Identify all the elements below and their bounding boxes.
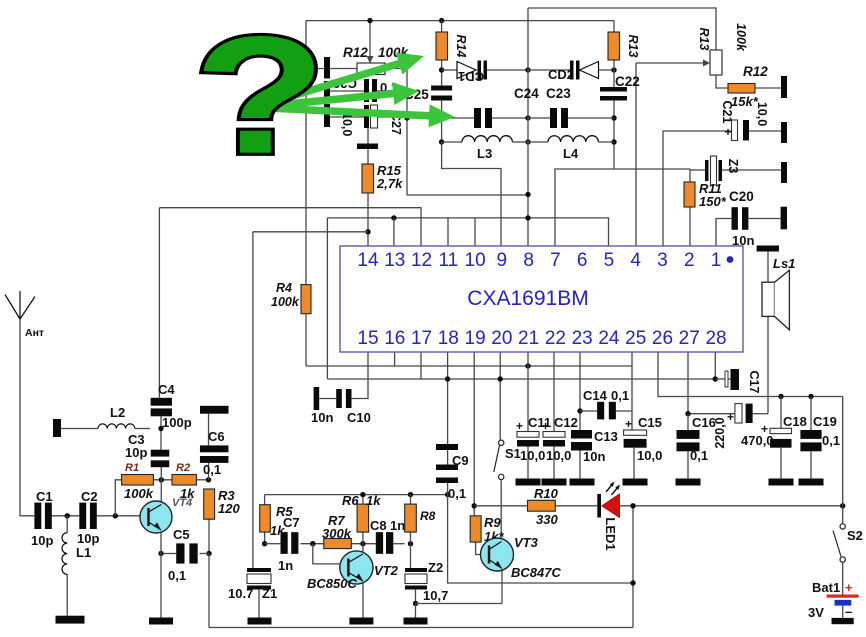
svg-text:R8: R8 [420, 509, 436, 523]
wire R7 right [351, 543, 376, 545]
bottom bus [209, 627, 633, 629]
wire center to C23 [528, 117, 550, 119]
node base/R1 [113, 513, 118, 518]
svg-text:20: 20 [491, 328, 512, 349]
wire left vertical to R4 [305, 21, 307, 285]
capacitor C5 0,1 [176, 543, 184, 563]
antenna [5, 291, 35, 319]
wire left drop to C4 [158, 208, 160, 398]
cluster bottom bar [357, 144, 378, 150]
svg-text:4: 4 [630, 250, 641, 271]
wire pin27 to C16 node [688, 352, 735, 414]
svg-text:BC847C: BC847C [511, 565, 561, 580]
wire Z2 node gnd [415, 604, 417, 618]
wire pin21 to C11 [527, 352, 529, 432]
wire CD2 left [528, 69, 570, 71]
wire pin28 to bus2 [714, 352, 716, 379]
node C8/R8 [408, 541, 413, 546]
svg-text:0,1: 0,1 [822, 433, 840, 448]
wire S1 to VT3 collector [500, 480, 502, 542]
svg-text:10n: 10n [311, 410, 333, 425]
svg-text:BC850C: BC850C [307, 576, 357, 591]
wire R6 top [362, 495, 364, 505]
speaker Ls1 [762, 282, 775, 316]
svg-text:LED1: LED1 [603, 517, 618, 550]
node bus2 pin18 [445, 376, 450, 381]
node R1/R2/C3 [159, 477, 164, 482]
node R13/CD2 [611, 67, 616, 72]
wire pot to right edge [385, 69, 407, 196]
wire C25 to L3 node [441, 101, 443, 143]
wire C9 bottom link [447, 483, 449, 495]
svg-text:5: 5 [604, 250, 615, 271]
transistor VT4 [140, 501, 172, 533]
capacitor C17 [725, 371, 728, 387]
wire CD2 right [599, 69, 615, 71]
wire C9 drop [448, 495, 633, 583]
svg-text:470,0: 470,0 [741, 433, 774, 448]
speaker Ls1 top bar [757, 246, 779, 252]
svg-text:10p: 10p [125, 445, 147, 460]
capacitor C25 [431, 86, 452, 91]
svg-text:R12: R12 [743, 64, 768, 79]
bus y208 to pin12 [159, 208, 421, 246]
svg-text:10p: 10p [31, 533, 53, 548]
wire bar to pot [330, 68, 357, 70]
wire pin8 column [527, 8, 529, 246]
svg-text:C4: C4 [158, 382, 175, 397]
wire C1 to C2 [52, 515, 80, 517]
svg-text:10p: 10p [77, 531, 99, 546]
svg-text:100p: 100p [162, 415, 192, 430]
node rail C19 [808, 394, 813, 399]
inductor L2 [98, 424, 135, 429]
wire Z1 bottom [258, 590, 260, 618]
wire R2 to junction [196, 479, 208, 481]
capacitor C10 10n [314, 387, 320, 410]
wire R5 bottom [264, 532, 266, 544]
capacitor C2 10p [79, 503, 86, 529]
terminal bar (Z3) [781, 162, 787, 183]
svg-text:VT4: VT4 [172, 497, 192, 509]
svg-text:220,0: 220,0 [713, 417, 727, 448]
svg-text:1n: 1n [390, 518, 405, 533]
resistor R7 300k [324, 539, 352, 549]
svg-text:C17: C17 [747, 371, 761, 394]
svg-text:100k: 100k [124, 486, 154, 501]
svg-text:27: 27 [679, 328, 700, 349]
svg-text:C18: C18 [783, 414, 807, 429]
svg-text:C8: C8 [370, 518, 387, 533]
wire C3 down [160, 467, 162, 480]
svg-text:0,1: 0,1 [168, 568, 186, 583]
wire R14 top [441, 21, 443, 32]
capacitor C1 10p [34, 503, 41, 529]
ground C16 [676, 479, 701, 486]
wire R3 bottom [208, 519, 210, 553]
svg-text:6: 6 [577, 250, 588, 271]
wire pin17 stub [420, 352, 422, 379]
resistor R13 (top) [608, 32, 620, 60]
wire C26 row b [377, 90, 407, 92]
LED LED1 [597, 494, 601, 518]
svg-text:0,1: 0,1 [611, 388, 629, 403]
wire R9 to base [476, 542, 481, 554]
wire Vcc riser [842, 397, 844, 506]
svg-text:R13: R13 [626, 35, 640, 58]
ground C13 [570, 479, 595, 486]
wire pin4 column [635, 63, 637, 246]
wire R6 bottom [362, 532, 364, 544]
wire Z2 bottom [415, 590, 417, 604]
wire bar to R15 [367, 149, 369, 165]
wire R8 to Z2 [410, 544, 412, 568]
wire VT3 emitter [501, 569, 503, 604]
wire pin11 stub [447, 218, 449, 246]
wire C24 to center [492, 117, 528, 119]
capacitor C23 [550, 108, 557, 128]
node center diode row [525, 67, 530, 72]
wire pin3 to C21 [663, 131, 732, 246]
resistor R8 [405, 504, 417, 532]
svg-text:C12: C12 [554, 415, 578, 430]
wire Z3 row left [689, 169, 691, 182]
svg-text:CD2: CD2 [548, 67, 574, 82]
wire R1 feed [115, 480, 121, 516]
wire C7 left [265, 543, 281, 545]
svg-text:S2: S2 [847, 528, 863, 543]
wire LED right [620, 505, 843, 507]
svg-text:25: 25 [625, 328, 646, 349]
node C14 tap [577, 408, 582, 413]
wire pin16 stub [394, 352, 396, 366]
svg-text:10,0: 10,0 [546, 448, 571, 463]
svg-text:28: 28 [705, 328, 726, 349]
ground C19 [799, 479, 824, 486]
wire R1-R2 link [153, 479, 172, 481]
wire long drop to Z1 [252, 232, 254, 568]
node C7/R7/base [310, 541, 315, 546]
svg-text:C24: C24 [514, 86, 539, 101]
wire pin18 to C9 [447, 352, 449, 444]
svg-text:1k: 1k [366, 493, 381, 508]
svg-text:–: – [845, 604, 852, 619]
node LED riser [630, 503, 635, 508]
svg-text:Bat1: Bat1 [812, 580, 840, 595]
svg-text:3V: 3V [808, 605, 824, 620]
svg-text:L3: L3 [477, 146, 492, 161]
wire branch to Z3 [614, 168, 690, 170]
svg-text:15k*: 15k* [731, 94, 759, 109]
ground C18 [769, 479, 794, 486]
wire C8 right [393, 543, 405, 545]
svg-text:26: 26 [652, 328, 673, 349]
svg-text:120: 120 [218, 501, 240, 516]
wire pin23 to C13 [579, 352, 581, 430]
node C5 right [206, 551, 211, 556]
resistor R14 100k [436, 32, 448, 60]
node cluster right [404, 115, 409, 120]
arrow 1 (to R14) [268, 53, 424, 107]
wire C7 right [301, 543, 324, 545]
wire C2 to VT4 base [97, 515, 140, 517]
wire pin22 to C12 [553, 352, 555, 432]
ground VT4 [149, 618, 173, 625]
svg-text:+: + [727, 410, 734, 424]
resistor R1 100k [122, 475, 154, 486]
ground Bat1 [832, 618, 854, 624]
svg-text:17: 17 [411, 328, 432, 349]
svg-text:C20: C20 [729, 189, 754, 204]
svg-text:7: 7 [550, 250, 561, 271]
wire Z3 to bar [722, 169, 781, 171]
svg-text:0,1: 0,1 [203, 462, 221, 477]
capacitor C8 1n [376, 532, 383, 554]
capacitor C20 10n [732, 207, 738, 230]
svg-text:1: 1 [711, 250, 722, 271]
capacitor C12 10,0 [543, 432, 565, 438]
inductor L1 [62, 533, 67, 575]
svg-text:C19: C19 [813, 414, 837, 429]
wire R10 left [474, 505, 527, 507]
wire R11 to pin2 [689, 207, 691, 246]
capacitor C24 [474, 108, 481, 128]
transistor VT2 BC850C [340, 551, 373, 584]
svg-text:R14: R14 [454, 35, 468, 58]
svg-text:3: 3 [657, 250, 668, 271]
wire S2 feed [842, 506, 844, 524]
ground C12 [542, 479, 567, 486]
wire C26 row a [330, 90, 364, 92]
wire C18 down [780, 448, 782, 479]
svg-text:Ls1: Ls1 [773, 256, 795, 271]
wire pin13 stub [393, 218, 395, 246]
wire C18 top [780, 397, 782, 429]
svg-text:2,7k: 2,7k [376, 176, 403, 191]
svg-text:1n: 1n [278, 558, 293, 573]
svg-text:330: 330 [536, 512, 558, 527]
svg-text:9: 9 [497, 250, 508, 271]
wire branch to pin7 [555, 169, 614, 246]
node L4 right [611, 139, 616, 144]
wire right riser [632, 506, 634, 628]
svg-text:Z3: Z3 [726, 159, 740, 174]
capacitor C13 10n [571, 430, 592, 439]
resistor R15 2,7k [362, 164, 374, 193]
capacitor C15 10,0 [624, 430, 647, 435]
wire S2 to battery [842, 562, 844, 594]
wire y195 link [407, 194, 528, 196]
wire C19 down [810, 451, 812, 478]
ground VT2 [349, 618, 373, 625]
node rail C18 [778, 394, 783, 399]
svg-text:10n: 10n [583, 449, 605, 464]
svg-text:18: 18 [438, 328, 459, 349]
capacitor C16 0,1 [677, 430, 700, 439]
transistor VT3 BC847C [481, 538, 514, 571]
switch S2 [840, 524, 845, 529]
svg-text:10: 10 [465, 250, 486, 271]
pin 1 marker dot [727, 256, 734, 263]
capacitor C9 0,1 [436, 444, 458, 450]
node L3 left [439, 139, 444, 144]
trimmer C27 [364, 105, 369, 128]
svg-text:16: 16 [384, 328, 405, 349]
resistor R10 330 [528, 500, 556, 511]
svg-text:Z2: Z2 [428, 560, 443, 575]
svg-text:22: 22 [545, 328, 566, 349]
svg-text:10,0: 10,0 [520, 448, 545, 463]
svg-text:C21: C21 [720, 101, 734, 124]
node center cap row [525, 115, 530, 120]
node bus1 pin21 [525, 363, 530, 368]
svg-text:C13: C13 [594, 429, 618, 444]
capacitor C6 0,1 [200, 406, 229, 414]
svg-text:R1: R1 [125, 462, 139, 474]
wire Ls1 drop [767, 316, 769, 413]
node bus C9 [445, 492, 450, 497]
wire L1 top [66, 516, 68, 533]
svg-text:23: 23 [572, 328, 593, 349]
wire cluster left feed [306, 68, 324, 70]
svg-text:C5: C5 [173, 527, 190, 542]
node bus2 S1 [498, 376, 503, 381]
wire pin1 to C20 [716, 219, 732, 247]
wire R4 bottom [305, 314, 307, 366]
capacitor C7 1n [281, 532, 288, 554]
wire C20 to bar [748, 218, 780, 220]
wire C9 top link [447, 450, 449, 465]
diode CD1 varicap [457, 62, 476, 79]
wire C24 row [407, 117, 474, 119]
svg-text:C14: C14 [583, 388, 608, 403]
svg-text:R13: R13 [697, 28, 711, 51]
wire pot bottom to R12 [716, 75, 728, 88]
node C5 left [158, 551, 163, 556]
svg-text:+: + [542, 419, 549, 433]
wire VT2 emitter [362, 583, 364, 618]
node C23 row right [611, 115, 616, 120]
capacitor 220,0 [735, 404, 742, 423]
wire L2 to bar [61, 428, 98, 430]
svg-text:+: + [845, 580, 853, 595]
wire R13 to C22 [613, 60, 615, 87]
node riser y583 [630, 580, 635, 585]
wire Z2 node to VT3 [416, 603, 503, 605]
wire CD1 left [442, 69, 457, 71]
resistor R6 1k [357, 504, 369, 532]
node R14/CD1 [439, 67, 444, 72]
ground L1 [56, 616, 85, 624]
capacitor C21 10,0 [732, 120, 738, 141]
wire pin20 to S1 [499, 352, 501, 440]
svg-text:C7: C7 [283, 515, 300, 530]
wire pin15 to C10 [352, 352, 369, 399]
terminal bar (C21) [781, 122, 787, 143]
bus1 under IC [306, 365, 632, 367]
wire C14 right [616, 410, 632, 412]
node R15 bus [365, 229, 370, 234]
svg-text:S1: S1 [505, 446, 521, 461]
node L2/C4 [158, 426, 163, 431]
capacitor C22 [600, 87, 627, 92]
resistor R11 150* [684, 182, 695, 207]
wire C10 link [319, 398, 336, 400]
svg-text:CXA1691BM: CXA1691BM [467, 287, 588, 310]
svg-text:VT3: VT3 [514, 535, 539, 550]
battery Bat1 3V [827, 595, 859, 598]
wire C22 down [613, 101, 615, 170]
wire VT4 collector up [160, 480, 162, 504]
capacitor C14 0,1 [597, 402, 604, 420]
resistor R4 100k [301, 285, 311, 314]
svg-text:CD1: CD1 [458, 69, 484, 84]
wire pin19 to R9 node [473, 352, 475, 506]
wire R12 to bar [755, 87, 781, 89]
svg-text:0,1: 0,1 [448, 486, 466, 501]
wire R14 to C25 [441, 60, 443, 86]
wire R10 to LED [555, 505, 597, 507]
crystal Z3 [705, 160, 709, 181]
wire C5 left link [161, 553, 176, 555]
node L3/L4 center [525, 139, 530, 144]
wire R8 bottom [410, 532, 412, 544]
bus2 under IC [327, 378, 715, 380]
potentiometer R12 100k [357, 63, 385, 75]
wire C13 down [579, 451, 581, 479]
svg-text:300k: 300k [322, 526, 352, 541]
node R6/R7/C8 [360, 541, 365, 546]
svg-text:VT2: VT2 [374, 563, 399, 578]
svg-text:+: + [725, 125, 732, 139]
wire C5 right link [200, 553, 209, 555]
potentiometer R13 100k [710, 50, 722, 75]
svg-text:10,0: 10,0 [755, 102, 769, 126]
wire L1 bottom [66, 574, 68, 616]
svg-text:13: 13 [384, 250, 405, 271]
wire R8 top [410, 495, 412, 505]
svg-text:100k: 100k [734, 23, 748, 52]
diode CD2 varicap [580, 62, 599, 79]
wire tail L3 to pin9 [442, 142, 501, 246]
ground C15 [623, 479, 648, 486]
node R2/C6/R3 [206, 477, 211, 482]
svg-text:100k: 100k [271, 295, 300, 309]
ground Z2 [404, 618, 428, 625]
wire pot wiper R13 [636, 62, 703, 64]
wire C27 row a [330, 116, 364, 118]
node Z2 gnd [413, 601, 418, 606]
node bus2 pin28 [713, 376, 718, 381]
node top rail / wiper [367, 18, 372, 23]
wire L2 link [135, 428, 150, 430]
wire C21 to bar [749, 130, 781, 132]
wire C11 down [527, 447, 529, 479]
svg-text:R10: R10 [534, 486, 559, 501]
wire C17 link [715, 378, 731, 380]
node R5/C7 [262, 541, 267, 546]
wire R13 top [613, 21, 615, 32]
svg-text:C1: C1 [36, 489, 53, 504]
node C1/L1 [65, 513, 70, 518]
svg-text:8: 8 [523, 250, 534, 271]
node R9/R10 [472, 503, 477, 508]
wire R12 wiper [369, 21, 371, 56]
wire left riser [208, 554, 210, 628]
wire Ls1 top [767, 252, 769, 283]
bus y232 [253, 231, 368, 233]
svg-text:R4: R4 [276, 281, 292, 295]
